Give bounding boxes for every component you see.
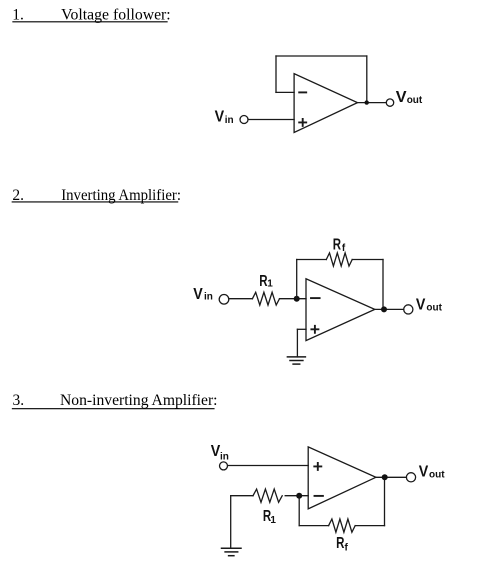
svg-text:out: out xyxy=(407,95,423,106)
svg-text:Voltage follower:: Voltage follower: xyxy=(61,7,171,24)
label Vin (circuit 3) xyxy=(211,443,229,462)
svg-text:f: f xyxy=(345,542,349,553)
wire feedback left vertical (circuit 2) xyxy=(296,260,298,299)
svg-text:2.: 2. xyxy=(12,187,24,204)
label R1 (circuit 3) xyxy=(263,508,277,526)
wire + input horizontal (circuit 2) xyxy=(297,328,306,330)
heading 1 underline xyxy=(13,21,167,23)
wire feedback bottom-right (circuit 3) xyxy=(355,525,384,527)
label Vin (circuit 1) xyxy=(215,108,234,126)
node Vout terminal (circuit 1) xyxy=(386,99,393,106)
node Vin terminal (circuit 1) xyxy=(240,116,248,124)
op-amp U2 non-inverting input marker (+) xyxy=(311,326,318,333)
svg-text:V: V xyxy=(193,286,203,303)
svg-text:3.: 3. xyxy=(13,392,25,409)
junction inverting input node (circuit 3) xyxy=(296,493,302,499)
ground (circuit 3) xyxy=(222,548,242,555)
svg-text:Non-inverting Amplifier:: Non-inverting Amplifier: xyxy=(60,392,218,409)
wire Vin terminal to R1 xyxy=(229,298,253,300)
node Vin terminal (circuit 2) xyxy=(219,295,229,305)
junction output/feedback (circuit 1) xyxy=(365,100,369,104)
op-amp U3 non-inverting input marker (+) xyxy=(314,463,321,470)
wire Vin terminal to + input xyxy=(248,119,294,121)
wire ground to R1 left xyxy=(231,495,253,497)
label Vout (circuit 3) xyxy=(419,463,446,480)
wire output xyxy=(358,102,387,104)
wire output (circuit 3) xyxy=(376,476,407,478)
heading 2 underline xyxy=(12,201,178,203)
label Vin (circuit 2) xyxy=(193,286,213,303)
label Rf (circuit 2) xyxy=(333,236,346,254)
node Vin terminal (circuit 3) xyxy=(220,462,228,470)
svg-text:out: out xyxy=(429,469,445,480)
wire R1 to - input xyxy=(285,495,308,497)
svg-text:1.: 1. xyxy=(12,7,24,24)
svg-text:V: V xyxy=(416,296,426,313)
op-amp U3 inverting input marker (-) xyxy=(315,495,323,497)
wire feedback left vertical (circuit 3) xyxy=(298,496,300,526)
wire ground vertical (circuit 3) xyxy=(230,496,232,549)
svg-text:R: R xyxy=(336,535,345,552)
svg-text:in: in xyxy=(220,451,229,462)
resistor Rf (circuit 2) xyxy=(326,253,352,266)
wire Vin terminal to + input xyxy=(228,465,309,467)
label Rf (circuit 3) xyxy=(336,535,348,553)
wire feedback top xyxy=(276,55,367,57)
wire feedback right vertical (circuit 3) xyxy=(384,477,386,525)
junction output/feedback (circuit 2) xyxy=(381,306,387,312)
wire feedback right vertical xyxy=(366,56,368,103)
wire R1 to - input xyxy=(280,298,307,300)
resistor Rf (circuit 3) xyxy=(329,519,356,532)
op-amp U2 (inverting amplifier) xyxy=(306,279,375,341)
wire output (circuit 2) xyxy=(375,308,404,310)
svg-text:R: R xyxy=(333,236,342,253)
resistor R1 (circuit 2) xyxy=(252,292,279,305)
node Vout terminal (circuit 3) xyxy=(406,473,415,482)
junction output/feedback (circuit 3) xyxy=(382,474,388,480)
wire feedback top-left (circuit 2) xyxy=(297,259,327,261)
op-amp U1 (voltage follower) xyxy=(294,74,357,133)
heading 3 underline xyxy=(12,408,214,410)
op-amp U3 (non-inverting amplifier) xyxy=(308,447,376,509)
label R1 (circuit 2) xyxy=(259,273,273,290)
wire - input to feedback (horizontal) xyxy=(276,91,294,93)
svg-text:V: V xyxy=(215,108,225,125)
wire + input to ground vertical xyxy=(296,329,298,357)
op-amp U1 non-inverting input marker (+) xyxy=(299,119,306,126)
op-amp U1 inverting input marker (-) xyxy=(299,91,306,93)
svg-text:in: in xyxy=(204,292,213,303)
label Vout (circuit 2) xyxy=(416,296,443,313)
op-amp U2 inverting input marker (-) xyxy=(311,297,320,299)
ground (circuit 2) xyxy=(287,357,305,364)
svg-text:Inverting Amplifier:: Inverting Amplifier: xyxy=(61,187,181,204)
svg-text:1: 1 xyxy=(270,515,276,526)
wire feedback bottom-left (circuit 3) xyxy=(299,525,328,527)
wire feedback top-right (circuit 2) xyxy=(352,259,383,261)
wire feedback left vertical xyxy=(275,56,277,92)
node Vout terminal (circuit 2) xyxy=(404,305,413,314)
svg-text:1: 1 xyxy=(267,279,273,290)
wire feedback right vertical (circuit 2) xyxy=(382,260,384,310)
svg-text:V: V xyxy=(396,89,407,106)
junction inverting input node (circuit 2) xyxy=(294,296,300,302)
label Vout (circuit 1) xyxy=(396,89,423,106)
resistor R1 (circuit 3) xyxy=(253,489,282,502)
svg-text:in: in xyxy=(225,115,234,126)
svg-text:V: V xyxy=(419,463,429,480)
svg-text:out: out xyxy=(426,302,442,313)
